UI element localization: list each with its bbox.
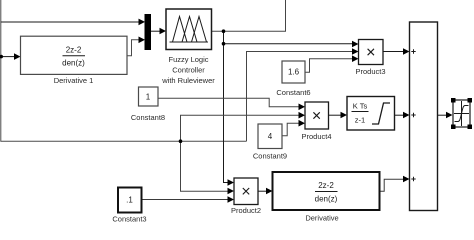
junction node Derivative 1 input — [0, 55, 3, 59]
wire node FLC branch down to Product2 input 1 — [224, 31, 229, 182]
fuzzy logic controller U: FLC with Ruleviewer — [161, 9, 215, 85]
wire Constant9 to Product4 input 3 — [282, 123, 300, 136]
svg-text:2z-2: 2z-2 — [66, 46, 82, 55]
arrowhead into Product4 input 2 — [299, 112, 306, 119]
arrowhead into Derivative — [266, 188, 273, 195]
arrowhead into Add input 2 — [403, 112, 410, 119]
arrowhead into saturation integrator — [341, 112, 348, 119]
discrete-time integrator block K Ts/z-1 with saturation — [347, 97, 395, 131]
selection handle bottom-right — [468, 125, 473, 130]
arrowhead into Product4 input 1 — [299, 104, 306, 111]
svg-text:Fuzzy Logic: Fuzzy Logic — [168, 55, 208, 64]
junction node feedback line — [179, 139, 183, 143]
wire Derivative output to Add input 3 — [380, 179, 405, 191]
wire Constant3 to Product2 input 3 — [142, 199, 229, 201]
arrowhead into Mux input 2 — [139, 37, 146, 44]
arrowhead into Product4 input 3 — [299, 120, 306, 127]
svg-text:Controller: Controller — [172, 66, 205, 75]
svg-text:den(z): den(z) — [315, 195, 338, 204]
svg-text:Constant8: Constant8 — [131, 113, 165, 122]
wire to Mux input 1 — [1, 21, 139, 23]
svg-text:Constant3: Constant3 — [112, 215, 146, 224]
product Product3 — [355, 40, 385, 77]
arrowhead into Product3 input 2 — [352, 48, 359, 55]
wire Constant6 to Product3 input 3 — [305, 59, 353, 72]
arrowhead into Derivative 1 — [14, 53, 21, 60]
wire Constant8 to Product4 input 1 — [158, 98, 300, 107]
selection handle top-right — [468, 98, 473, 103]
wire FLC output to offscreen top — [212, 0, 286, 31]
wire node branch to Product3 input 1 — [224, 43, 354, 45]
junction node Product3 branch — [222, 42, 226, 46]
arrowhead into Add input 3 — [403, 176, 410, 183]
wire Mux output to Fuzzy Logic Controller — [151, 30, 161, 32]
wire Add output to scope — [438, 114, 448, 116]
sum block Add — [410, 22, 438, 211]
transfer function block Derivative — [273, 172, 380, 223]
wire feedback junction down to Product2 input 2 — [181, 141, 229, 191]
mux Mux — [145, 15, 151, 50]
svg-text:1.6: 1.6 — [288, 68, 300, 77]
wire feedback left vertical — [1, 0, 247, 141]
arrowhead into Product2 input 3 — [228, 196, 235, 203]
constant Constant8 — [131, 87, 165, 122]
svg-text:2z-2: 2z-2 — [318, 181, 334, 190]
transfer function block Derivative 1 — [21, 36, 128, 85]
wire feedback up to Product3 input 2 — [247, 52, 354, 142]
svg-text:K Ts: K Ts — [353, 102, 368, 111]
svg-text:z-1: z-1 — [355, 116, 365, 125]
arrowhead into Mux input 1 — [139, 19, 146, 26]
arrowhead into FLC — [160, 28, 167, 35]
scope block (selected, saturation curve icon) — [451, 98, 472, 129]
svg-text:Constant6: Constant6 — [276, 88, 310, 97]
wire Product4 output to saturation integrator — [329, 114, 342, 116]
svg-text:Product4: Product4 — [301, 132, 331, 141]
svg-text:Derivative 1: Derivative 1 — [54, 76, 94, 85]
constant Constant9 — [253, 124, 287, 161]
selection handle top-left — [451, 98, 456, 103]
junction node FLC output — [222, 29, 226, 33]
svg-text:den(z): den(z) — [62, 59, 85, 68]
wire feedback junction up to Product4 input 2 — [181, 115, 300, 141]
arrowhead into Product2 input 1 — [228, 179, 235, 186]
wire saturation integrator output to Add input 2 — [395, 114, 405, 116]
arrowhead into Product3 input 3 — [352, 55, 359, 62]
arrowhead into scope — [446, 112, 453, 119]
constant Constant6 — [276, 61, 310, 97]
svg-text:4: 4 — [268, 132, 273, 141]
svg-text:with Ruleviewer: with Ruleviewer — [161, 76, 215, 85]
svg-text:Product2: Product2 — [231, 206, 261, 215]
svg-text:.1: .1 — [126, 196, 133, 205]
wire to Derivative 1 input — [1, 56, 15, 58]
svg-text:Product3: Product3 — [355, 67, 385, 76]
svg-text:Constant9: Constant9 — [253, 152, 287, 161]
arrowhead into Add input 1 — [403, 48, 410, 55]
wire Product3 output to Add input 1 — [383, 51, 404, 53]
svg-text:Derivative: Derivative — [305, 214, 338, 223]
product Product4 — [301, 102, 331, 141]
selection handle bottom-left — [451, 125, 456, 130]
arrowhead into Product2 input 2 — [228, 188, 235, 195]
arrowhead into Product3 input 1 — [352, 41, 359, 48]
wire Product2 output to Derivative — [258, 190, 267, 192]
svg-text:1: 1 — [146, 93, 151, 102]
constant Constant3 — [112, 188, 146, 224]
product Product2 — [231, 178, 261, 215]
wire Derivative 1 output to Mux input 2 — [127, 40, 139, 56]
